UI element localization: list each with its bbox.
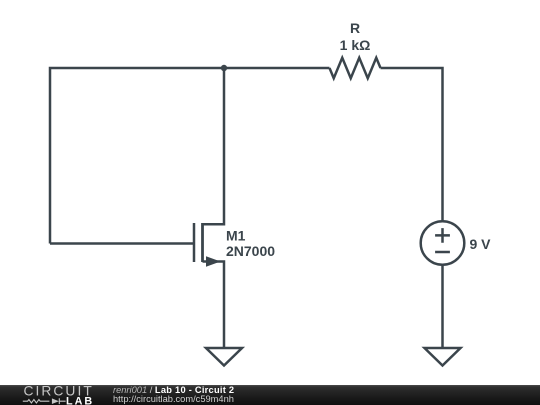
svg-text:2N7000: 2N7000 [226,243,275,259]
svg-text:9 V: 9 V [470,236,492,252]
svg-text:1 kΩ: 1 kΩ [340,37,371,53]
svg-text:R: R [350,20,360,36]
svg-text:LAB: LAB [66,395,94,405]
svg-text:M1: M1 [226,227,246,243]
